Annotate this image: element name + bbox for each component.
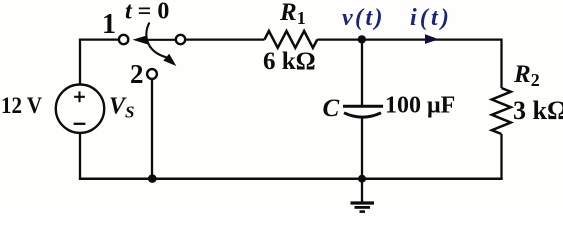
switch terminal 2 circle <box>147 69 157 79</box>
wire top-left horizontal (corner to switch terminal 1) <box>80 38 119 40</box>
wire right vertical upper (corner to R2) <box>500 39 502 89</box>
capacitor C top plate <box>343 105 383 108</box>
switch terminal 1 circle <box>119 35 128 44</box>
junction dot terminal-2 branch / bottom rail <box>148 174 157 183</box>
node v(t) dot <box>358 35 366 43</box>
minus sign of source <box>74 123 86 125</box>
voltage source VS circle <box>56 85 104 133</box>
switching action curved arrow <box>146 23 166 58</box>
resistor R2 zigzag <box>492 88 511 134</box>
wire from R1 to right corner (top rail) <box>317 38 501 40</box>
svg-text:VS: VS <box>109 94 134 122</box>
svg-text:R2: R2 <box>513 61 540 90</box>
capacitor C bottom curved plate <box>344 113 381 117</box>
switch right pivot terminal circle <box>176 35 185 44</box>
svg-text:R1: R1 <box>279 0 306 28</box>
svg-text:1: 1 <box>102 9 116 40</box>
ground bar 3 <box>360 210 366 213</box>
ground stem <box>361 179 363 202</box>
switch blade wire with arrowhead pointing to terminal 1 <box>146 39 175 41</box>
resistor R1 zigzag <box>265 31 318 48</box>
junction dot capacitor branch / bottom rail <box>358 175 366 183</box>
ground bar 2 <box>355 206 371 209</box>
wire left vertical upper (corner down to source top) <box>79 39 81 85</box>
svg-text:6 kΩ: 6 kΩ <box>263 48 316 75</box>
svg-text:3 kΩ: 3 kΩ <box>513 96 563 125</box>
wire capacitor branch lower (bottom plate to bottom rail) <box>361 117 363 179</box>
svg-text:12 V: 12 V <box>1 93 42 118</box>
ground bar 1 <box>351 201 375 204</box>
wire right vertical lower (R2 to bottom rail) <box>500 134 502 180</box>
current arrow i(t) on top rail <box>425 34 439 44</box>
plus sign of source <box>74 91 85 102</box>
svg-text:t = 0: t = 0 <box>125 0 169 25</box>
svg-text:i(t): i(t) <box>410 5 452 31</box>
svg-text:100 μF: 100 μF <box>385 93 455 119</box>
wire capacitor branch upper (node down to top plate) <box>361 39 363 105</box>
wire left vertical lower (source bottom to bottom rail) <box>79 133 81 180</box>
svg-text:C: C <box>323 95 340 122</box>
svg-text:2: 2 <box>130 59 144 89</box>
bottom rail wire <box>79 177 503 180</box>
svg-text:v(t): v(t) <box>342 5 385 31</box>
wire from terminal 2 down to bottom rail <box>151 79 153 179</box>
wire from switch pivot to resistor R1 <box>185 38 264 40</box>
